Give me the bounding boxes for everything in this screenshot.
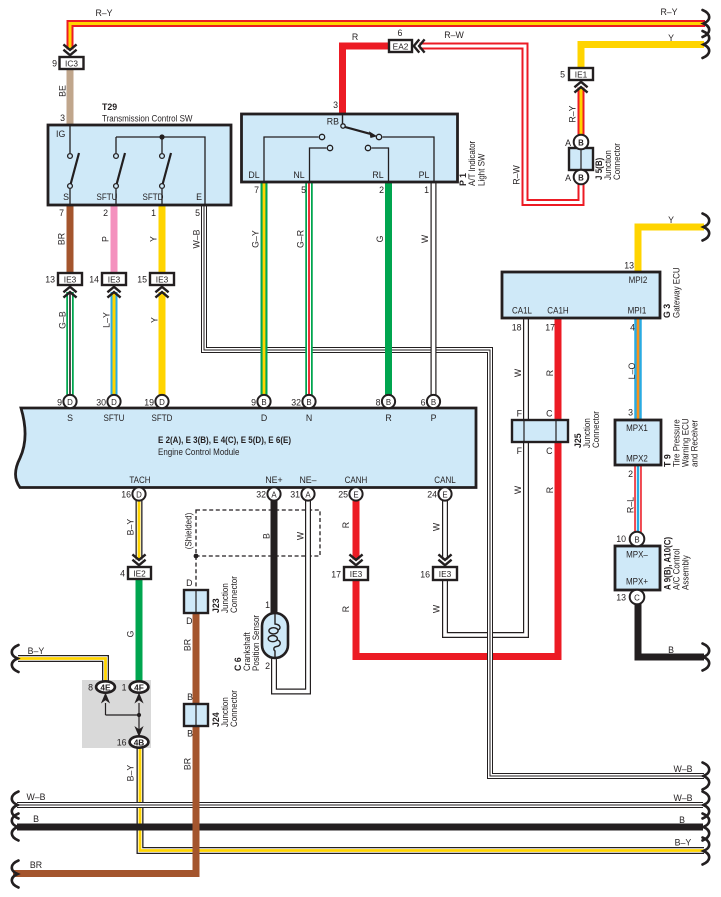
svg-text:E: E xyxy=(442,491,447,500)
label G wire (RL) xyxy=(375,235,385,242)
svg-text:13: 13 xyxy=(616,593,626,603)
svg-text:BR: BR xyxy=(30,860,42,870)
label D (J23 bottom) xyxy=(186,616,192,626)
svg-text:MPI2: MPI2 xyxy=(629,275,648,285)
label 9 (ECM D) xyxy=(251,398,256,408)
label J5(B) designator xyxy=(594,158,604,180)
label P wire (SFTU) xyxy=(101,236,111,242)
svg-text:3: 3 xyxy=(628,408,633,418)
gray box junction dot xyxy=(137,713,141,717)
ECM pin circle NE- 31(A) xyxy=(301,487,314,500)
svg-text:IE3: IE3 xyxy=(439,569,452,579)
svg-text:G–B: G–B xyxy=(58,311,68,329)
svg-text:C: C xyxy=(634,594,640,603)
svg-text:24: 24 xyxy=(427,490,437,500)
label 10 (A/C MPX-) xyxy=(616,534,626,544)
svg-text:15: 15 xyxy=(137,275,147,285)
label G wire (IE2 to 4F) xyxy=(126,630,136,637)
label R wire below J25 xyxy=(545,487,555,493)
label G3 CA1L xyxy=(512,306,532,316)
svg-text:31: 31 xyxy=(290,490,300,500)
crankshaft position sensor C6 capsule xyxy=(262,613,288,658)
svg-text:R–Y: R–Y xyxy=(95,8,112,18)
svg-text:BR: BR xyxy=(183,639,193,651)
svg-text:Connector: Connector xyxy=(229,576,239,613)
svg-text:19: 19 xyxy=(144,398,154,408)
label B wire (A/C) xyxy=(668,645,674,655)
label J23 designator xyxy=(211,598,221,613)
wire W-B from T29 E pin to bottom-right edge xyxy=(204,205,704,776)
svg-text:W: W xyxy=(513,485,523,494)
label G-R wire xyxy=(296,230,306,248)
label ECM S xyxy=(67,413,73,423)
label T29 pin 7 xyxy=(59,208,64,218)
label T29 pin 5 xyxy=(195,208,200,218)
svg-text:2: 2 xyxy=(379,185,384,195)
ECM designator text xyxy=(158,435,291,445)
wire L-O from G3 MPI1 to T9 MPX1 xyxy=(634,318,642,420)
svg-text:32: 32 xyxy=(291,398,301,408)
connector IE1 box xyxy=(569,68,593,80)
svg-text:2: 2 xyxy=(265,661,270,671)
label 8 (4E) xyxy=(88,683,93,693)
label J23 name line2 xyxy=(229,576,239,613)
continuation brace Y top right xyxy=(703,31,710,58)
svg-text:(Shielded): (Shielded) xyxy=(184,513,194,550)
svg-text:6: 6 xyxy=(398,28,403,38)
ECM pin circle TACH 16(D) xyxy=(132,487,145,500)
svg-text:17: 17 xyxy=(331,570,341,580)
svg-text:Y: Y xyxy=(149,236,159,242)
label 14 IE3 xyxy=(89,275,99,285)
ECM pin circle CANH 25(E) xyxy=(349,487,362,500)
label B rail left xyxy=(33,814,39,824)
IE3-17 chevron arrow xyxy=(349,554,362,565)
label G3 CA1H xyxy=(547,306,568,316)
label BR rail left xyxy=(30,860,42,870)
label W-B upper right xyxy=(673,764,692,774)
svg-text:B–Y: B–Y xyxy=(28,646,45,656)
label B rail right xyxy=(679,815,685,825)
label T29 pin 2 xyxy=(103,208,108,218)
label ECM SFTD xyxy=(152,413,173,423)
continuation brace B-Y left xyxy=(12,645,19,672)
junction connector J25 box xyxy=(512,420,568,442)
svg-text:17: 17 xyxy=(545,323,555,333)
IE2 chevron arrow xyxy=(132,554,145,565)
svg-text:B: B xyxy=(431,398,436,407)
connector IE3-16 box xyxy=(433,567,457,580)
label C6 designator xyxy=(233,657,243,671)
wire W from P1 PL to ECM P xyxy=(431,182,437,395)
svg-text:9: 9 xyxy=(57,398,62,408)
svg-text:G–R: G–R xyxy=(296,230,306,248)
label BR wire (J23-J24) xyxy=(183,639,193,651)
ECM name text xyxy=(158,447,239,457)
transmission control switch T29 box xyxy=(48,125,231,205)
svg-text:Y: Y xyxy=(668,33,674,43)
IE3-16 chevron arrow xyxy=(438,554,451,565)
svg-text:D: D xyxy=(136,491,142,500)
svg-text:and Receiver: and Receiver xyxy=(690,420,700,467)
svg-text:W–B: W–B xyxy=(673,793,692,803)
T29 internal bus to E pin xyxy=(116,137,205,205)
ECM pin circle S 9(D) xyxy=(63,395,76,408)
svg-text:W: W xyxy=(513,368,523,377)
T29 switch SFTU xyxy=(114,137,125,205)
svg-text:W: W xyxy=(432,522,442,531)
svg-text:E 2(A), E 3(B), E 4(C), E 5(D): E 2(A), E 3(B), E 4(C), E 5(D), E 6(E) xyxy=(158,435,291,445)
connector IE2 box xyxy=(128,567,151,579)
label P1 pin 7 xyxy=(254,185,259,195)
continuation brace B rail left xyxy=(12,814,19,841)
label 3 (T9 MPX1) xyxy=(628,408,633,418)
label ECM NE- xyxy=(299,475,316,485)
wire W from ECM CANL to J25 xyxy=(445,442,526,635)
svg-text:D: D xyxy=(261,413,267,423)
label J24 designator xyxy=(211,712,221,727)
label ECM P xyxy=(431,413,437,423)
label W wire (NE-) xyxy=(296,531,306,540)
label G3 name xyxy=(672,267,682,318)
label Y at G3 xyxy=(668,215,674,225)
svg-text:W–B: W–B xyxy=(192,229,202,248)
label B (J24 bottom) xyxy=(187,729,193,739)
svg-text:T29: T29 xyxy=(102,102,117,112)
svg-text:DL: DL xyxy=(248,170,259,180)
svg-text:S: S xyxy=(63,192,69,202)
label ECM NE+ xyxy=(265,475,282,485)
svg-text:30: 30 xyxy=(96,398,106,408)
wire W from ECM NE- to crankshaft sensor pin 2 xyxy=(274,500,308,692)
svg-text:2: 2 xyxy=(628,469,633,479)
svg-text:IE3: IE3 xyxy=(64,275,77,285)
svg-text:16: 16 xyxy=(117,738,127,748)
label J25 name line2 xyxy=(591,411,601,448)
svg-text:B–Y: B–Y xyxy=(675,838,692,848)
svg-text:13: 13 xyxy=(45,275,55,285)
svg-text:1: 1 xyxy=(424,185,429,195)
label W wire (CA1L) xyxy=(513,368,523,377)
label Y wire (to SFTD pin) xyxy=(150,317,160,323)
label T9 name line2 xyxy=(681,418,691,467)
J5(B) pin B circle bottom xyxy=(574,170,589,185)
label G-B wire xyxy=(58,311,68,329)
label 16 (TACH) xyxy=(121,490,131,500)
svg-text:W–B: W–B xyxy=(26,792,45,802)
svg-text:3: 3 xyxy=(333,100,338,110)
label 25 (CANH) xyxy=(338,490,348,500)
label T9 designator xyxy=(663,454,673,467)
engine control module ECM box xyxy=(16,408,477,488)
svg-text:B: B xyxy=(578,139,584,148)
svg-text:D: D xyxy=(159,398,165,407)
svg-text:B: B xyxy=(386,398,391,407)
label F (J25 top) xyxy=(517,409,523,419)
svg-text:D: D xyxy=(186,616,192,626)
label G3 designator xyxy=(662,304,672,318)
label B-Y wire below 4B xyxy=(126,765,136,782)
label A/C MPX+ xyxy=(626,577,648,587)
arrow into 4F xyxy=(134,693,143,704)
label R wire (CA1H) xyxy=(545,370,555,376)
label L-Y wire xyxy=(102,312,112,328)
svg-text:B–Y: B–Y xyxy=(126,519,136,536)
label B-Y rail right xyxy=(675,838,692,848)
label 5 (IE1) xyxy=(560,70,565,80)
connector 4E ellipse xyxy=(96,681,115,692)
wire B from ECM NE+ to crankshaft sensor xyxy=(271,500,278,615)
label 6 (EA2) xyxy=(398,28,403,38)
label 4 (MPI1) xyxy=(630,323,635,333)
ECM pin circle N 32(B) xyxy=(302,395,315,408)
wire R-W from EA2 to J5(B) xyxy=(420,46,582,203)
continuation brace R-Y top right xyxy=(703,10,710,37)
svg-text:Transmission Control SW: Transmission Control SW xyxy=(102,114,193,124)
junction connector J5(B) box xyxy=(569,148,593,170)
label 2 (sensor) xyxy=(265,661,270,671)
label A/C name line2 xyxy=(681,555,691,590)
svg-text:16: 16 xyxy=(121,490,131,500)
label B-Y wire (TACH) xyxy=(126,519,136,536)
label G3 MPI1 xyxy=(628,306,647,316)
label 17 (IE3) xyxy=(331,570,341,580)
label J25 designator xyxy=(573,433,583,448)
svg-text:G: G xyxy=(126,630,136,637)
T29 switch SFTD xyxy=(160,137,171,205)
svg-text:16: 16 xyxy=(420,570,430,580)
svg-text:TACH: TACH xyxy=(129,475,150,485)
svg-text:A: A xyxy=(565,173,571,183)
label P1 designator xyxy=(458,173,468,186)
svg-text:B: B xyxy=(306,398,311,407)
label ECM CANL xyxy=(434,475,455,485)
svg-text:N: N xyxy=(306,413,312,423)
label 6 (ECM P) xyxy=(421,398,426,408)
wire R from P1 RB to EA2 xyxy=(343,46,390,115)
svg-text:Connector: Connector xyxy=(612,143,622,180)
svg-text:IE2: IE2 xyxy=(133,569,146,579)
svg-text:PL: PL xyxy=(419,170,430,180)
label ECM CANH xyxy=(345,475,368,485)
svg-text:R: R xyxy=(385,413,391,423)
svg-text:IC3: IC3 xyxy=(65,59,78,69)
label A/C name line1 xyxy=(672,549,682,590)
label T29 pin 1 xyxy=(151,208,156,218)
label J24 name line1 xyxy=(220,697,230,727)
IE3-14 chevron arrow xyxy=(107,287,120,298)
svg-text:SFTU: SFTU xyxy=(104,413,125,423)
label 8 (ECM R) xyxy=(376,398,381,408)
T29 bus junction dot xyxy=(159,134,164,139)
label A/C designator xyxy=(663,537,673,590)
label Y wire (SFTD) xyxy=(149,236,159,242)
svg-text:5: 5 xyxy=(195,208,200,218)
label W wire below J25 xyxy=(513,485,523,494)
label C (J25 top) xyxy=(546,409,553,419)
label A (J5B top) xyxy=(565,138,571,148)
junction connector J24 box xyxy=(184,704,208,726)
label L-O wire xyxy=(627,363,637,380)
label G-Y wire xyxy=(251,230,261,248)
svg-text:6: 6 xyxy=(421,398,426,408)
label A (J5B bottom) xyxy=(565,173,571,183)
svg-text:R–Y: R–Y xyxy=(568,105,578,122)
label Y top right xyxy=(668,33,674,43)
label G3 MPI2 xyxy=(629,275,648,285)
EA2 chevron arrow xyxy=(414,39,425,52)
svg-text:B: B xyxy=(187,729,193,739)
svg-text:R: R xyxy=(341,606,351,612)
svg-text:8: 8 xyxy=(88,683,93,693)
svg-text:B: B xyxy=(679,815,685,825)
label T29 SFTD xyxy=(143,192,164,202)
continuation brace B-Y rail right xyxy=(703,838,710,865)
label R-W wire vertical xyxy=(512,165,522,185)
floor harness gray box (4E/4F/4B) xyxy=(82,680,151,748)
svg-text:Light SW: Light SW xyxy=(477,153,487,186)
label ECM N xyxy=(306,413,312,423)
svg-text:BR: BR xyxy=(183,758,193,770)
P1 internal contacts and wiring xyxy=(264,134,434,182)
connector IE3-13 box xyxy=(58,273,82,285)
label P1 pin 1 xyxy=(424,185,429,195)
label R-Y top right xyxy=(660,7,677,17)
ECM pin circle CANL 24(E) xyxy=(438,487,451,500)
svg-text:R–L: R–L xyxy=(626,497,636,513)
label J24 name line2 xyxy=(229,690,239,727)
junction connector J23 box xyxy=(184,590,208,613)
label T29 SFTU xyxy=(97,192,118,202)
wire R-L from T9 MPX2 to A/C MPX- xyxy=(634,465,642,532)
label ECM SFTU xyxy=(104,413,125,423)
svg-text:Position Sensor: Position Sensor xyxy=(251,615,261,671)
svg-text:NE–: NE– xyxy=(299,475,316,485)
label P1 pin 5 xyxy=(301,185,306,195)
ECM pin circle NE+ 32(A) xyxy=(267,487,280,500)
label P1 NL xyxy=(293,170,304,180)
T29 switch S xyxy=(68,125,79,205)
svg-text:1: 1 xyxy=(122,683,127,693)
label T29 name xyxy=(102,114,193,124)
wire R from ECM CANH to J25 xyxy=(356,442,558,657)
svg-text:4: 4 xyxy=(630,323,635,333)
label R-W wire top xyxy=(444,30,464,40)
svg-text:W: W xyxy=(420,234,430,243)
svg-text:7: 7 xyxy=(59,208,64,218)
svg-text:SFTU: SFTU xyxy=(97,192,118,202)
label ECM R xyxy=(385,413,391,423)
wire Y from IE1 to top-right edge xyxy=(581,45,704,69)
svg-text:RL: RL xyxy=(372,170,383,180)
label 16 (4B) xyxy=(117,738,127,748)
svg-text:3: 3 xyxy=(60,113,65,123)
ECM pin circle SFTD 19(D) xyxy=(155,395,168,408)
svg-text:MPI1: MPI1 xyxy=(628,306,647,316)
label 24 (CANL) xyxy=(427,490,437,500)
label 32 (ECM N) xyxy=(291,398,301,408)
IE3-13 chevron arrow xyxy=(63,287,76,298)
wire W from G3 CA1L to J25 xyxy=(523,318,529,420)
A/T indicator light switch P1 box xyxy=(242,114,458,182)
svg-text:B–Y: B–Y xyxy=(126,765,136,782)
svg-text:G 3: G 3 xyxy=(662,304,672,318)
label J5(B) name line1 xyxy=(603,150,613,180)
svg-text:R–W: R–W xyxy=(444,30,464,40)
svg-text:A: A xyxy=(305,491,311,500)
label P1 name line1 xyxy=(467,141,477,186)
label T9 MPX2 xyxy=(626,454,648,464)
shielded cable dashed box xyxy=(196,510,320,590)
label P1 RL xyxy=(372,170,383,180)
label 32 (NE+) xyxy=(256,490,266,500)
svg-text:4F: 4F xyxy=(134,683,144,693)
label 3 (P1 RB) xyxy=(333,100,338,110)
wire G from IE2 to connector 4F xyxy=(136,579,143,687)
svg-text:IG: IG xyxy=(56,129,65,139)
svg-text:Connector: Connector xyxy=(591,411,601,448)
svg-text:W: W xyxy=(296,531,306,540)
svg-text:L–O: L–O xyxy=(627,363,637,380)
svg-text:B: B xyxy=(187,692,193,702)
svg-text:MPX2: MPX2 xyxy=(626,454,648,464)
svg-text:BE: BE xyxy=(58,85,68,97)
wire B from A/C MPX+ to right edge xyxy=(638,604,704,657)
wire R-Y from IC3 to top-right edge xyxy=(70,24,705,50)
J5(B) pin B circle top xyxy=(574,135,589,150)
label (Shielded) xyxy=(184,513,194,550)
wire BR from J24 down to bottom-left edge xyxy=(13,613,196,874)
label W-B wire (T29 E) xyxy=(192,229,202,248)
ECM pin circle D 9(B) xyxy=(257,395,270,408)
wire B-Y from connector 4B to bottom-right edge xyxy=(140,742,704,851)
svg-text:EA2: EA2 xyxy=(393,42,409,52)
svg-text:E: E xyxy=(353,491,358,500)
svg-text:R: R xyxy=(545,487,555,493)
label 18 (CA1L) xyxy=(512,323,522,333)
label B wire (NE+) xyxy=(262,533,272,539)
label 13 (A/C MPX+) xyxy=(616,593,626,603)
svg-text:P: P xyxy=(431,413,437,423)
label 1 (4F) xyxy=(122,683,127,693)
label W-B rail right xyxy=(673,793,692,803)
svg-text:D: D xyxy=(111,398,117,407)
svg-text:B: B xyxy=(578,174,584,183)
label T29 S xyxy=(63,192,69,202)
svg-text:C: C xyxy=(546,409,553,419)
svg-text:L–Y: L–Y xyxy=(102,312,112,328)
svg-text:13: 13 xyxy=(624,261,634,271)
label R wire (CANH lower) xyxy=(341,606,351,612)
svg-text:B: B xyxy=(262,533,272,539)
IE3-15 chevron arrow xyxy=(155,287,168,298)
label P1 pin 2 xyxy=(379,185,384,195)
svg-text:1: 1 xyxy=(151,208,156,218)
label R wire (CANH upper) xyxy=(341,522,351,528)
wire B-Y from ECM TACH to IE2 xyxy=(136,500,143,560)
svg-text:R: R xyxy=(545,370,555,376)
connector IE3-15 box xyxy=(150,273,174,285)
svg-text:Assembly: Assembly xyxy=(681,555,691,590)
svg-text:5: 5 xyxy=(560,70,565,80)
label 4 (IE2) xyxy=(120,569,125,579)
ECM pin circle R 8(B) xyxy=(382,395,395,408)
label R-L wire xyxy=(626,497,636,513)
label 17 (CA1H) xyxy=(545,323,555,333)
wire G-Y from P1 DL to ECM D xyxy=(261,182,268,395)
svg-text:7: 7 xyxy=(254,185,259,195)
label T9 name line1 xyxy=(672,419,682,467)
